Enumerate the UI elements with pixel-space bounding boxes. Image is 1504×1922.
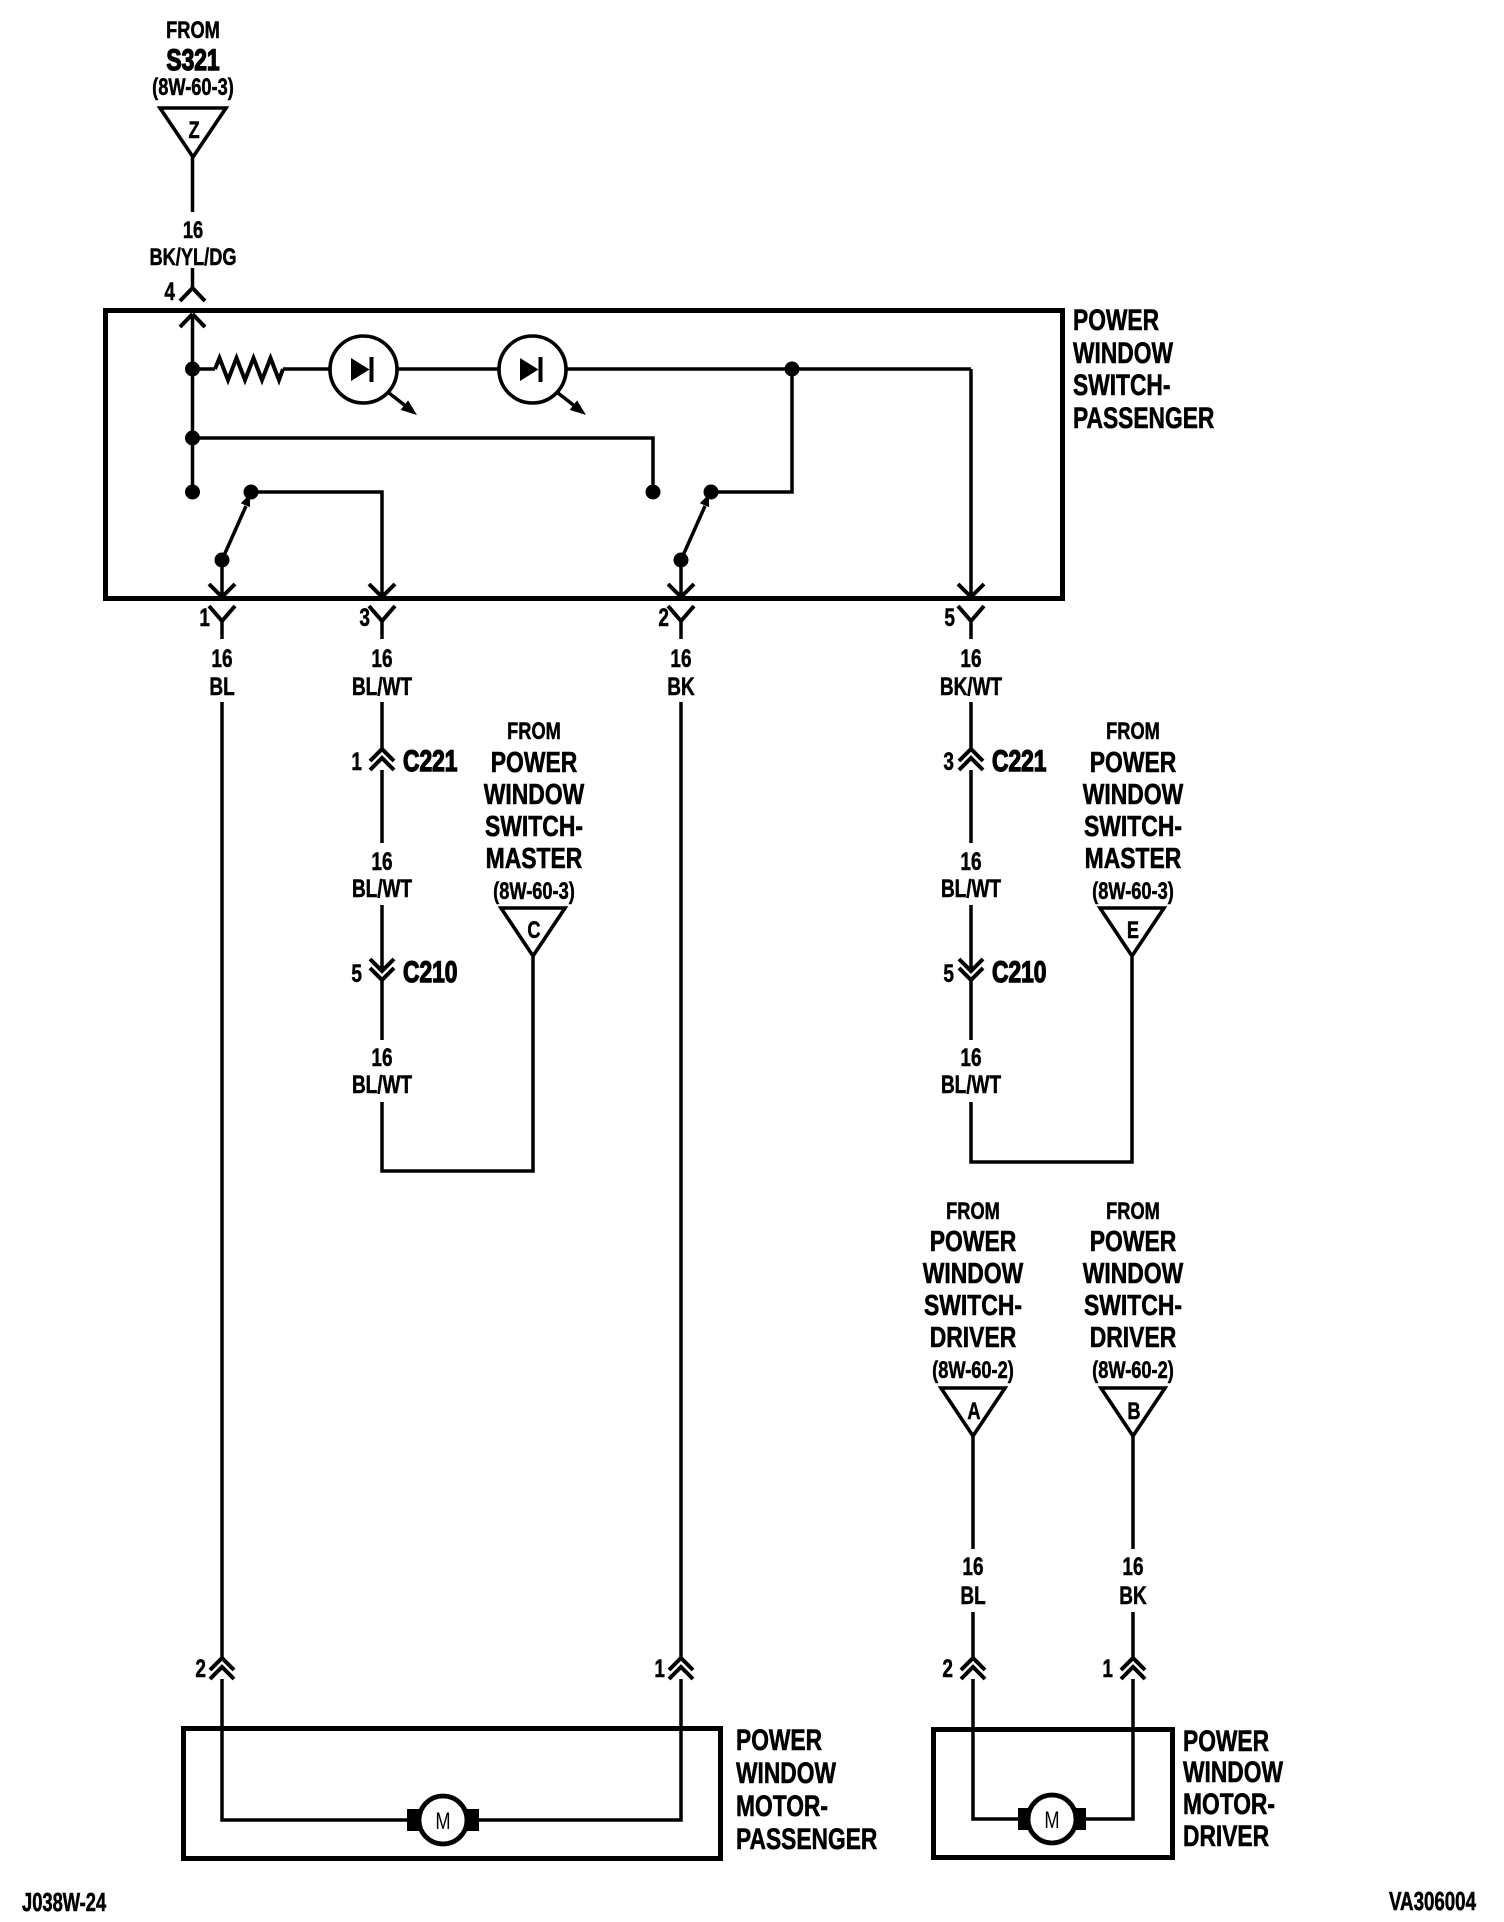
wire label 16 BL/WT (pin 3): [352, 644, 412, 700]
wires inside passenger motor box: [222, 1728, 681, 1820]
wire below C210 right: [969, 980, 973, 1040]
svg-text:BL/WT: BL/WT: [352, 672, 412, 700]
in-line connector C221 pin 3 (chevrons): [959, 749, 983, 770]
svg-text:SWITCH-: SWITCH-: [924, 1288, 1022, 1321]
wire pin 2 down to motor connector: [679, 702, 683, 1658]
svg-text:2: 2: [658, 603, 669, 631]
wire to driver motor connector right: [1131, 1612, 1135, 1658]
node junction at feed and lower row: [185, 431, 200, 446]
pin 3 connector fork below edge: [369, 606, 395, 639]
wire label 16 BL/WT (below C221 right): [941, 847, 1001, 902]
pin 4 connector fork (female half): [180, 288, 205, 301]
svg-text:FROM: FROM: [1106, 1198, 1160, 1225]
svg-text:DRIVER: DRIVER: [1090, 1320, 1177, 1353]
svg-text:3: 3: [943, 747, 954, 775]
wire switch 1 contact to pin 3: [251, 492, 382, 597]
svg-text:POWER: POWER: [1073, 303, 1159, 337]
wire pin 3 to C221: [380, 702, 384, 749]
pin 1 connector fork below edge: [209, 606, 235, 639]
svg-text:POWER: POWER: [1090, 745, 1177, 778]
off-page reference triangle E: [1100, 908, 1164, 956]
svg-text:16: 16: [960, 847, 981, 875]
wire triangle A down: [971, 1436, 975, 1549]
node junction on top row for switch 2 feed: [785, 362, 800, 377]
label FROM S321 (8W-60-3): [152, 17, 234, 101]
svg-text:16: 16: [371, 1043, 392, 1071]
pin 5 connector arrow at box edge: [958, 584, 984, 597]
wires inside driver motor box: [973, 1729, 1133, 1819]
resistor (illumination): [215, 358, 283, 380]
wire label 16 BL/WT (lower): [352, 1043, 412, 1098]
svg-text:(8W-60-3): (8W-60-3): [1092, 878, 1174, 905]
svg-text:WINDOW: WINDOW: [1183, 1755, 1284, 1789]
wire resistor to LED 1: [283, 367, 330, 371]
svg-text:C210: C210: [403, 955, 457, 989]
wire jog to triangle E riser: [971, 957, 1132, 1162]
wire switch 2 feed riser: [711, 369, 792, 492]
svg-text:POWER: POWER: [1183, 1724, 1269, 1758]
svg-text:POWER: POWER: [491, 745, 578, 778]
node switch 2 throw contact left: [646, 485, 661, 500]
pin 4 connector arrow (male half inside box): [180, 314, 205, 327]
label FROM POWER WINDOW SWITCH-DRIVER (8W-60-2) left: [923, 1198, 1024, 1384]
svg-text:VA306004: VA306004: [1389, 1886, 1476, 1916]
LED lamp 2: [499, 336, 586, 415]
svg-text:BL: BL: [960, 1581, 985, 1609]
svg-text:SWITCH-: SWITCH-: [1084, 1288, 1182, 1321]
svg-text:C: C: [527, 917, 540, 944]
wire to pin 4: [191, 268, 195, 289]
svg-text:WINDOW: WINDOW: [923, 1256, 1024, 1289]
svg-text:BL/WT: BL/WT: [941, 1070, 1001, 1098]
svg-text:1: 1: [199, 603, 210, 631]
svg-text:2: 2: [942, 1654, 953, 1682]
label FROM POWER WINDOW SWITCH-MASTER (8W-60-3) left: [484, 718, 585, 905]
pin 1 connector arrow at box edge: [209, 584, 235, 597]
svg-text:S321: S321: [166, 43, 219, 77]
svg-text:16: 16: [960, 644, 981, 672]
svg-text:5: 5: [351, 959, 362, 987]
pin 3 connector arrow at box edge: [369, 584, 395, 597]
component box POWER WINDOW MOTOR-PASSENGER: [184, 1729, 721, 1859]
in-line connector C210 pin 5 (chevrons): [370, 959, 394, 980]
wire label 16 BK/YL/DG: [149, 217, 236, 271]
svg-text:FROM: FROM: [507, 718, 561, 745]
in-line connector C221 pin 1 (chevrons): [370, 749, 394, 770]
switch 1 arm: [222, 494, 250, 560]
wire pin 5 riser: [969, 369, 973, 597]
svg-text:WINDOW: WINDOW: [484, 777, 585, 810]
wire label 16 BL (driver left): [960, 1552, 985, 1609]
svg-text:(8W-60-2): (8W-60-2): [1092, 1357, 1174, 1384]
svg-text:A: A: [967, 1398, 980, 1425]
svg-text:16: 16: [962, 1552, 983, 1580]
node switch 1 throw contact left: [185, 485, 200, 500]
svg-text:SWITCH-: SWITCH-: [485, 809, 583, 842]
svg-text:FROM: FROM: [166, 17, 220, 44]
wire feed vertical inside box: [191, 314, 195, 492]
pin 2 connector arrow at box edge: [668, 584, 694, 597]
wire into passenger motor right: [679, 1679, 683, 1728]
motor M driver: [1018, 1795, 1086, 1843]
svg-text:BK: BK: [667, 672, 694, 700]
svg-text:J038W-24: J038W-24: [22, 1888, 107, 1917]
node switch 2 throw contact right: [704, 485, 719, 500]
svg-text:5: 5: [944, 603, 955, 631]
wire into passenger motor left: [220, 1679, 224, 1728]
off-page reference triangle A: [941, 1388, 1005, 1436]
svg-text:BK: BK: [1119, 1581, 1146, 1609]
wire lower row from feed: [193, 438, 654, 492]
svg-text:4: 4: [164, 277, 175, 305]
svg-text:BL/WT: BL/WT: [352, 1070, 412, 1098]
wire below C210: [380, 980, 384, 1040]
svg-text:FROM: FROM: [946, 1198, 1000, 1225]
off-page reference triangle B: [1101, 1388, 1165, 1436]
wire label 16 BK (pin 2): [667, 644, 694, 700]
component title POWER WINDOW MOTOR-DRIVER: [1183, 1724, 1284, 1853]
svg-text:POWER: POWER: [736, 1723, 822, 1757]
svg-text:MOTOR-: MOTOR-: [1183, 1787, 1275, 1821]
svg-text:(8W-60-2): (8W-60-2): [932, 1357, 1014, 1384]
svg-text:1: 1: [351, 747, 362, 775]
wire switch 1 common to pin 1: [220, 560, 224, 597]
wire label 16 BK/WT (pin 5): [940, 644, 1003, 700]
label FROM POWER WINDOW SWITCH-MASTER (8W-60-3) right: [1083, 718, 1184, 905]
svg-text:16: 16: [371, 847, 392, 875]
switch 1 common node: [215, 553, 230, 568]
svg-text:16: 16: [960, 1043, 981, 1071]
svg-text:POWER: POWER: [930, 1224, 1017, 1257]
wire to C210: [380, 905, 384, 969]
svg-text:Z: Z: [188, 117, 199, 144]
wire label 16 BL (pin 1): [209, 644, 234, 700]
switch 2 arm: [681, 494, 709, 560]
LED lamp 1: [330, 336, 417, 415]
wire LED 1 to LED 2: [397, 367, 499, 371]
node junction at feed and resistor row: [185, 362, 200, 377]
wire label 16 BK (driver right): [1119, 1552, 1146, 1609]
wire into driver motor left: [971, 1679, 975, 1729]
wire from triangle Z down: [191, 157, 195, 212]
motor M passenger: [407, 1796, 479, 1844]
component title POWER WINDOW SWITCH-PASSENGER: [1073, 303, 1214, 435]
svg-text:M: M: [435, 1808, 450, 1835]
component box POWER WINDOW MOTOR-DRIVER: [934, 1730, 1173, 1858]
svg-text:M: M: [1044, 1807, 1059, 1834]
component box POWER WINDOW SWITCH-PASSENGER: [106, 311, 1063, 599]
svg-text:2: 2: [195, 1654, 206, 1682]
pin 2 connector fork below edge: [668, 606, 694, 639]
svg-text:16: 16: [183, 217, 203, 244]
wire label 16 BL/WT (below C221): [352, 847, 412, 902]
off-page reference triangle Z: [160, 108, 226, 157]
in-line connector pin 2 passenger motor left (chevrons): [210, 1658, 234, 1679]
wire pin 5 to C221: [969, 702, 973, 749]
wire label 16 BL/WT (lower right): [941, 1043, 1001, 1098]
off-page reference triangle C: [501, 908, 565, 956]
component title POWER WINDOW MOTOR-PASSENGER: [736, 1723, 877, 1856]
wire to C210 right: [969, 905, 973, 969]
svg-text:FROM: FROM: [1106, 718, 1160, 745]
wire below C221: [380, 770, 384, 843]
svg-text:C221: C221: [992, 744, 1047, 778]
svg-text:16: 16: [1122, 1552, 1143, 1580]
svg-text:1: 1: [1102, 1654, 1113, 1682]
svg-text:3: 3: [359, 603, 370, 631]
in-line connector C210 pin 5 right (chevrons): [959, 959, 983, 980]
svg-text:C221: C221: [403, 744, 458, 778]
wire jog to triangle C riser: [382, 957, 533, 1171]
switch 2 common node: [674, 553, 689, 568]
svg-text:WINDOW: WINDOW: [1083, 777, 1184, 810]
svg-text:DRIVER: DRIVER: [1183, 1819, 1269, 1853]
svg-text:B: B: [1127, 1398, 1140, 1425]
svg-text:1: 1: [654, 1654, 665, 1682]
svg-text:BK/WT: BK/WT: [940, 672, 1003, 700]
svg-text:POWER: POWER: [1090, 1224, 1177, 1257]
wire below C221 right: [969, 770, 973, 843]
svg-text:BL: BL: [209, 672, 234, 700]
label FROM POWER WINDOW SWITCH-DRIVER (8W-60-2) right: [1083, 1198, 1184, 1384]
svg-text:DRIVER: DRIVER: [930, 1320, 1017, 1353]
svg-text:C210: C210: [992, 955, 1046, 989]
wire pin 1 down to motor connector: [220, 702, 224, 1658]
svg-text:BK/YL/DG: BK/YL/DG: [149, 244, 236, 271]
svg-text:PASSENGER: PASSENGER: [1073, 401, 1214, 435]
svg-text:E: E: [1127, 917, 1139, 944]
wire into driver motor right: [1131, 1679, 1135, 1729]
svg-text:PASSENGER: PASSENGER: [736, 1822, 877, 1856]
svg-text:(8W-60-3): (8W-60-3): [493, 878, 575, 905]
node switch 1 throw contact right: [244, 485, 259, 500]
wire from feed node to resistor: [193, 367, 216, 371]
pin 5 connector fork below edge: [958, 606, 984, 639]
svg-text:16: 16: [670, 644, 691, 672]
svg-text:MASTER: MASTER: [1085, 841, 1182, 874]
svg-text:WINDOW: WINDOW: [1073, 336, 1174, 370]
in-line connector pin 1 passenger motor right (chevrons): [669, 1658, 693, 1679]
wire switch 2 common to pin 2: [679, 560, 683, 597]
svg-text:BL/WT: BL/WT: [352, 874, 412, 902]
in-line connector pin 1 driver motor right (chevrons): [1121, 1658, 1145, 1679]
wire triangle B down: [1131, 1436, 1135, 1549]
svg-text:(8W-60-3): (8W-60-3): [152, 74, 234, 101]
svg-text:MASTER: MASTER: [486, 841, 583, 874]
svg-text:SWITCH-: SWITCH-: [1084, 809, 1182, 842]
svg-text:16: 16: [371, 644, 392, 672]
wire LED 2 to pin 5 riser: [566, 367, 971, 371]
svg-text:16: 16: [211, 644, 232, 672]
svg-text:BL/WT: BL/WT: [941, 874, 1001, 902]
svg-text:WINDOW: WINDOW: [1083, 1256, 1184, 1289]
svg-text:MOTOR-: MOTOR-: [736, 1789, 828, 1823]
wire to driver motor connector: [971, 1612, 975, 1658]
svg-text:WINDOW: WINDOW: [736, 1756, 837, 1790]
svg-text:SWITCH-: SWITCH-: [1073, 368, 1170, 402]
in-line connector pin 2 driver motor left (chevrons): [961, 1658, 985, 1679]
svg-text:5: 5: [943, 959, 954, 987]
